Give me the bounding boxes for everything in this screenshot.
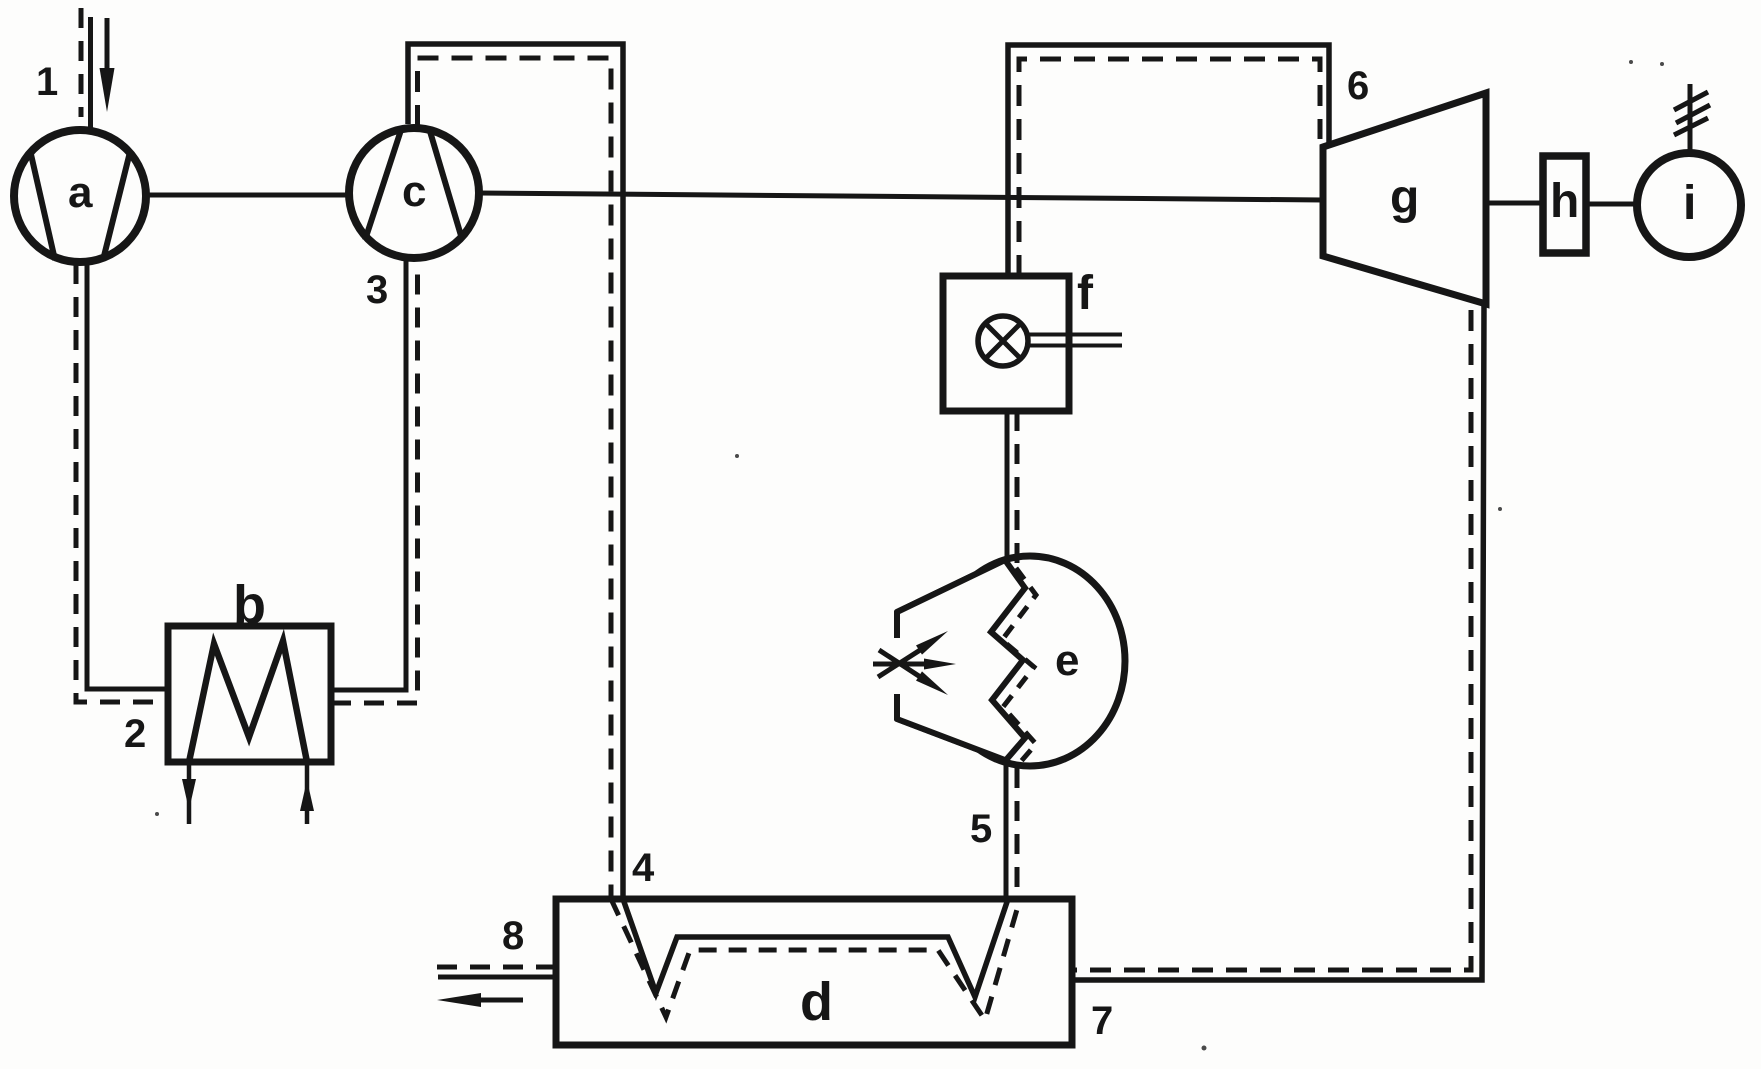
pipe e to d dashed — [1015, 768, 1020, 899]
svg-text:6: 6 — [1347, 64, 1369, 108]
svg-text:a: a — [68, 168, 93, 217]
valve circle with X — [978, 316, 1028, 366]
svg-text:7: 7 — [1091, 999, 1113, 1043]
inlet pipe 1 solid — [88, 17, 93, 128]
heat exchanger b — [168, 626, 331, 762]
coupling h box — [1543, 156, 1586, 253]
svg-text:5: 5 — [970, 807, 992, 851]
pipe a to b dashed — [76, 264, 168, 702]
svg-text:h: h — [1550, 175, 1579, 228]
svg-text:b: b — [233, 575, 266, 635]
combustor casing outline — [897, 560, 1005, 760]
exhaust pipe g to d solid — [1072, 304, 1484, 980]
pipe f to e solid — [1005, 411, 1010, 562]
svg-text:e: e — [1055, 636, 1079, 685]
fuel spray arrow down-right — [916, 671, 948, 695]
pipe f to turbine loop dashed — [1019, 59, 1320, 276]
coil M in b — [189, 641, 307, 762]
svg-text:c: c — [402, 167, 426, 216]
pipe b to c solid — [331, 260, 406, 690]
combustor e shell — [935, 556, 1125, 766]
heating coil zigzag solid — [991, 560, 1025, 760]
svg-text:2: 2 — [124, 712, 146, 756]
pipe b to c dashed — [331, 262, 418, 703]
recuperator d box — [556, 899, 1072, 1045]
b outlet arrow down — [182, 762, 196, 824]
stack pipe 8 solid — [438, 975, 556, 980]
shaft h to i — [1586, 202, 1637, 207]
svg-text:8: 8 — [502, 914, 524, 958]
compressor a — [14, 130, 146, 262]
recuperator pipe 4 dashed — [418, 58, 612, 899]
turbine g — [1323, 93, 1486, 304]
casing fill mask — [897, 560, 1005, 760]
fuel valve f box — [943, 276, 1069, 411]
combustor casing left — [897, 560, 1005, 760]
paper specks — [155, 60, 1664, 1051]
svg-text:1: 1 — [36, 60, 58, 104]
tube path in d solid — [623, 899, 1008, 997]
valve stem — [1028, 335, 1122, 346]
recuperator pipe 4 solid — [408, 44, 623, 899]
pipe f to e dashed — [1015, 411, 1020, 566]
svg-text:i: i — [1683, 177, 1696, 230]
main shaft c to g — [479, 193, 1323, 200]
svg-text:f: f — [1077, 267, 1094, 320]
stack pipe 8 dashed — [437, 965, 556, 970]
pipe f to turbine loop solid — [1008, 45, 1329, 276]
svg-text:g: g — [1390, 171, 1419, 224]
fuel spray arrow right — [924, 659, 956, 670]
inlet flow arrow — [100, 18, 115, 112]
grid connection line — [1688, 84, 1693, 151]
pipe a to b solid — [87, 262, 168, 689]
svg-text:d: d — [800, 972, 833, 1032]
burner nozzle — [873, 645, 930, 682]
fuel spray arrow up-right — [916, 631, 948, 655]
compressor c — [349, 127, 479, 258]
tube path in d dashed — [611, 899, 1020, 1020]
shaft g to h — [1486, 201, 1543, 206]
stack flow arrow — [437, 993, 523, 1007]
b inlet arrow up — [300, 762, 314, 824]
shaft a to c — [146, 193, 349, 198]
inlet pipe 1 dashed — [79, 8, 84, 117]
svg-text:4: 4 — [632, 846, 655, 890]
svg-text:3: 3 — [366, 268, 388, 312]
grid hatch marks — [1674, 92, 1710, 135]
pipe e to d solid — [1004, 760, 1009, 899]
generator i — [1637, 153, 1741, 257]
exhaust pipe g to d dashed — [1072, 310, 1471, 970]
heating coil zigzag dashed — [1002, 568, 1036, 766]
